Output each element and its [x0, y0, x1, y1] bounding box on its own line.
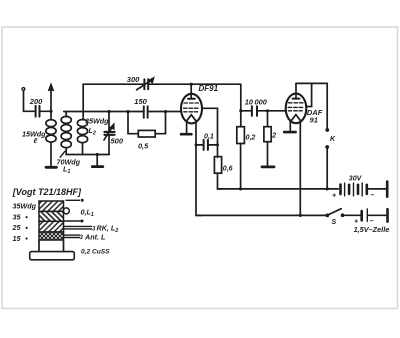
svg-text:Ant. L: Ant. L — [84, 232, 105, 241]
svg-text:200: 200 — [29, 97, 43, 106]
svg-text:91: 91 — [310, 115, 318, 124]
svg-text:25: 25 — [12, 223, 22, 232]
svg-text:15: 15 — [13, 234, 22, 243]
svg-text:L2: L2 — [89, 126, 96, 137]
svg-text:35Wdg: 35Wdg — [13, 201, 37, 210]
svg-text:1,5V–Zelle: 1,5V–Zelle — [354, 225, 390, 234]
svg-text:35: 35 — [13, 212, 22, 221]
svg-text:0,6: 0,6 — [223, 166, 233, 173]
svg-text:3: 3 — [80, 235, 84, 241]
svg-text:70Wdg: 70Wdg — [57, 157, 81, 166]
svg-text:DF91: DF91 — [199, 84, 219, 93]
svg-text:500: 500 — [111, 136, 124, 145]
svg-text:ℓ: ℓ — [34, 136, 38, 145]
svg-text:2: 2 — [271, 132, 276, 139]
svg-text:S: S — [332, 219, 337, 226]
svg-text:30V: 30V — [349, 175, 363, 182]
svg-text:0,1: 0,1 — [204, 134, 214, 141]
svg-text:+: + — [332, 192, 336, 199]
svg-text:0,2: 0,2 — [246, 134, 256, 141]
svg-text:35Wdg: 35Wdg — [85, 117, 109, 126]
svg-text:0,2 CuSS: 0,2 CuSS — [81, 249, 110, 256]
svg-text:300: 300 — [127, 75, 140, 84]
svg-text:10 000: 10 000 — [245, 97, 268, 106]
svg-text:K: K — [330, 136, 336, 143]
svg-text:0,5: 0,5 — [138, 142, 149, 151]
svg-text:–: – — [371, 192, 375, 199]
svg-text:150: 150 — [134, 97, 147, 106]
svg-text:0,L1: 0,L1 — [81, 208, 94, 219]
svg-text:[Vogt T21/18HF]: [Vogt T21/18HF] — [12, 187, 82, 197]
